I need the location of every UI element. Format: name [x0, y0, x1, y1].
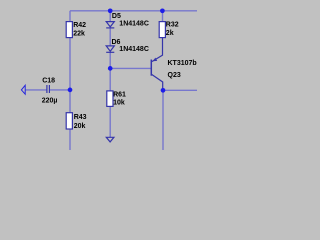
svg-text:R61: R61: [113, 92, 126, 99]
svg-text:1N4148C: 1N4148C: [119, 21, 149, 28]
svg-text:1N4148C: 1N4148C: [119, 46, 149, 53]
svg-text:C18: C18: [42, 78, 55, 85]
svg-text:R32: R32: [166, 22, 179, 29]
svg-text:KT3107b: KT3107b: [168, 60, 197, 67]
svg-text:20k: 20k: [74, 123, 86, 130]
svg-text:10k: 10k: [113, 100, 125, 107]
svg-text:R42: R42: [73, 22, 86, 29]
svg-text:22k: 22k: [73, 31, 85, 38]
svg-text:220µ: 220µ: [42, 98, 58, 105]
svg-text:D5: D5: [112, 13, 121, 20]
svg-text:R43: R43: [74, 114, 87, 121]
svg-text:Q23: Q23: [168, 72, 181, 79]
svg-text:2k: 2k: [166, 30, 174, 37]
